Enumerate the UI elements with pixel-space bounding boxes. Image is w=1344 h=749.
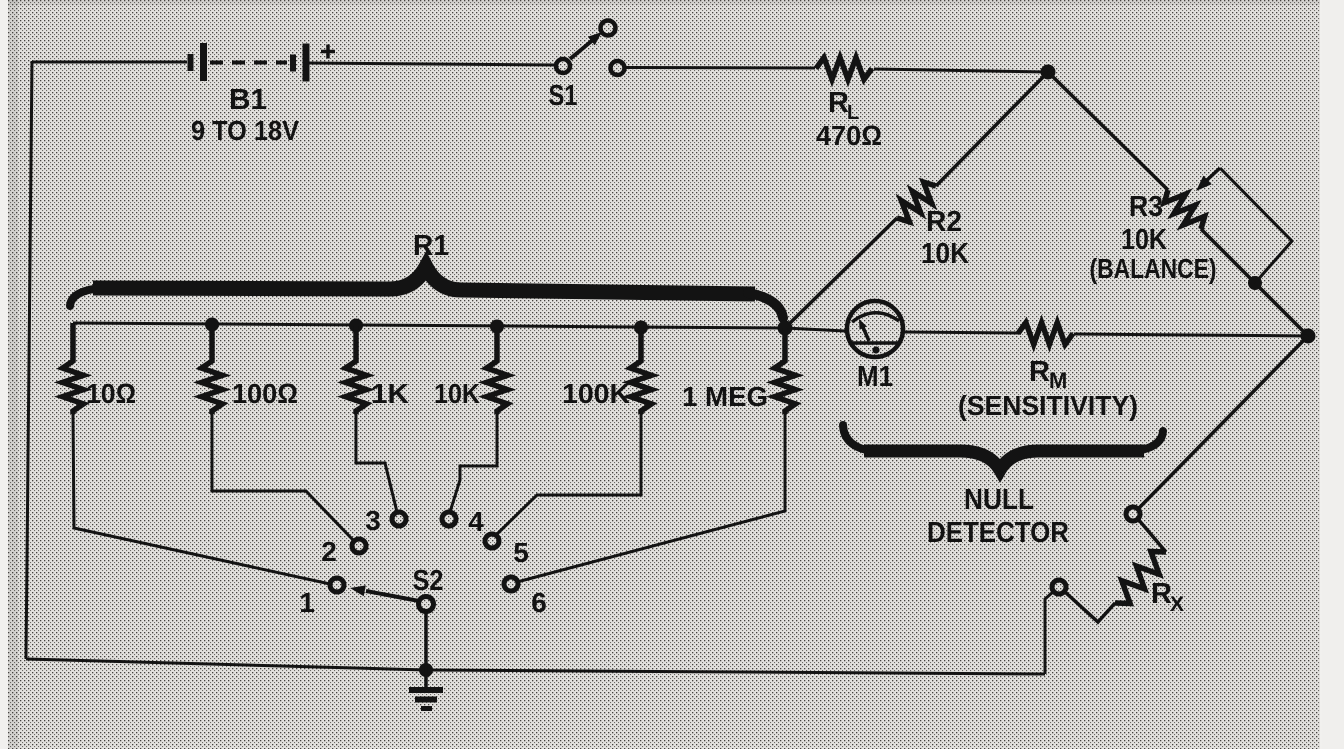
svg-text:1 MEG: 1 MEG bbox=[682, 381, 768, 412]
brace NULL DETECTOR bbox=[843, 425, 1163, 470]
junction ground bbox=[419, 663, 433, 677]
svg-text:R1: R1 bbox=[413, 230, 449, 262]
resistor R1 100 ohm bbox=[202, 325, 223, 415]
wire battery left lead bbox=[32, 61, 187, 64]
label RM bbox=[1029, 356, 1067, 393]
resistor RL bbox=[816, 58, 872, 80]
wire S1 to RL bbox=[625, 66, 815, 70]
label contact 5 bbox=[513, 537, 529, 568]
resistor R1 10K bbox=[487, 327, 508, 415]
label 10K (bank) bbox=[434, 378, 480, 409]
resistor RM bbox=[1018, 323, 1073, 345]
svg-text:10K: 10K bbox=[434, 378, 480, 409]
svg-text:M1: M1 bbox=[857, 361, 893, 393]
svg-text:S1: S1 bbox=[549, 80, 578, 112]
junction bus x=641 bbox=[634, 321, 648, 335]
ground symbol bbox=[409, 670, 443, 711]
label contact 4 bbox=[468, 506, 484, 537]
wire 100 ohm to contact 2 bbox=[212, 414, 354, 541]
wire RM to right node bbox=[1074, 334, 1308, 336]
svg-text:10K: 10K bbox=[1121, 224, 1167, 256]
wire R3 to junction bbox=[1201, 229, 1255, 283]
label contact 2 bbox=[321, 536, 337, 567]
svg-text:4: 4 bbox=[468, 506, 484, 537]
S2 wiper arrow bbox=[350, 585, 419, 601]
svg-text:10Ω: 10Ω bbox=[86, 378, 136, 409]
label 1 MEG bbox=[682, 381, 768, 412]
wire 1K to contact 3 bbox=[356, 414, 397, 512]
label B1 bbox=[229, 84, 267, 116]
S2 contact 1 bbox=[330, 578, 344, 592]
wire S2 pole to ground bus bbox=[424, 611, 428, 670]
label contact 1 bbox=[299, 587, 315, 618]
wire meter to RM bbox=[904, 332, 1019, 333]
wire Rx terminal to zigzag bbox=[1138, 519, 1166, 552]
wire 100K to contact 5 bbox=[496, 414, 641, 535]
wire 10K to contact 4 bbox=[450, 414, 497, 512]
label S1 bbox=[549, 80, 578, 112]
svg-text:R3: R3 bbox=[1129, 191, 1163, 223]
resistor R2 bbox=[897, 182, 936, 222]
wire Rx left terminal to ground bus bbox=[1045, 592, 1053, 674]
svg-text:100K: 100K bbox=[562, 378, 630, 409]
svg-text:R: R bbox=[828, 87, 849, 119]
label 100 ohm bbox=[232, 378, 298, 409]
label 9 TO 18V bbox=[191, 115, 299, 146]
S2 contact 5 bbox=[485, 534, 499, 548]
label 10 ohm bbox=[86, 378, 136, 409]
label R1 bbox=[413, 230, 449, 262]
wire ground bus bbox=[26, 659, 1045, 674]
label contact 6 bbox=[531, 587, 547, 618]
brace R1 bbox=[70, 267, 783, 318]
wire R2 to bus junction bbox=[785, 218, 897, 328]
svg-text:2: 2 bbox=[321, 536, 337, 567]
switch S1 bbox=[556, 21, 625, 76]
label S2 bbox=[413, 565, 444, 597]
resistor R1 100K bbox=[631, 328, 652, 415]
svg-text:R: R bbox=[1151, 578, 1172, 610]
svg-text:R: R bbox=[1029, 356, 1050, 388]
wire battery to switch S1 bbox=[309, 63, 556, 65]
node right (bridge right corner) bbox=[1301, 329, 1316, 344]
wire Rx zigzag to left terminal bbox=[1065, 592, 1115, 622]
label RX bbox=[1151, 578, 1184, 616]
svg-text:100Ω: 100Ω bbox=[232, 378, 298, 409]
junction below R3 bbox=[1248, 276, 1262, 290]
svg-text:3: 3 bbox=[365, 505, 381, 536]
junction bus x=497 bbox=[490, 320, 504, 334]
resistor R1 1 MEG bbox=[775, 328, 796, 414]
wire 1 MEG to contact 6 bbox=[517, 414, 785, 582]
label 470 ohm bbox=[816, 120, 882, 151]
wire right node to Rx terminal bbox=[1138, 336, 1308, 509]
resistor R1 1K bbox=[346, 326, 367, 415]
svg-text:S2: S2 bbox=[413, 565, 444, 597]
S2 pole bbox=[419, 597, 434, 612]
R3 wiper arrow bbox=[1196, 168, 1220, 191]
junction bus x=212 bbox=[205, 318, 219, 332]
wire RL to top node bbox=[874, 69, 1048, 72]
battery plus sign bbox=[321, 45, 335, 59]
label M1 bbox=[857, 361, 893, 393]
svg-text:9 TO 18V: 9 TO 18V bbox=[191, 115, 299, 146]
label NULL bbox=[964, 484, 1034, 516]
node top (bridge top corner) bbox=[1041, 65, 1056, 80]
wire 10 ohm to contact 1 bbox=[73, 414, 330, 584]
label 10K (R2) bbox=[921, 238, 969, 270]
svg-text:470Ω: 470Ω bbox=[816, 120, 882, 151]
resistor R1 10 ohm bbox=[63, 323, 84, 414]
label RL bbox=[828, 87, 859, 124]
S2 contact 3 bbox=[392, 512, 406, 526]
wire junction to right node bbox=[1255, 283, 1308, 336]
wire left vertical (battery minus to ground bus) bbox=[26, 61, 32, 659]
R3 wiper loop wire bbox=[1220, 168, 1292, 283]
resistor Rx bbox=[1115, 552, 1166, 604]
svg-text:5: 5 bbox=[513, 537, 529, 568]
battery B1 bbox=[188, 43, 310, 82]
svg-text:6: 6 bbox=[531, 587, 547, 618]
junction bus x=356 bbox=[349, 319, 363, 333]
label R2 bbox=[926, 206, 962, 238]
terminal Rx top bbox=[1126, 507, 1140, 521]
svg-text:10K: 10K bbox=[921, 238, 969, 270]
label 1K bbox=[371, 378, 409, 409]
wire R1 bus bbox=[73, 323, 785, 328]
potentiometer R3 bbox=[1164, 190, 1204, 229]
svg-text:(SENSITIVITY): (SENSITIVITY) bbox=[958, 390, 1138, 421]
wire top node to R2 bbox=[936, 72, 1048, 186]
svg-text:NULL: NULL bbox=[964, 484, 1034, 516]
junction bus right end bbox=[778, 321, 793, 336]
svg-text:1K: 1K bbox=[371, 378, 409, 409]
svg-text:B1: B1 bbox=[229, 84, 267, 116]
svg-text:(BALANCE): (BALANCE) bbox=[1090, 253, 1217, 284]
wire top node to R3 bbox=[1048, 72, 1168, 190]
svg-text:R2: R2 bbox=[926, 206, 962, 238]
label (BALANCE) bbox=[1090, 253, 1217, 284]
wire bus junction to meter M1 bbox=[785, 328, 845, 331]
terminal Rx left bbox=[1052, 580, 1066, 594]
label 10K (R3) bbox=[1121, 224, 1167, 256]
svg-text:1: 1 bbox=[299, 587, 315, 618]
svg-text:X: X bbox=[1170, 593, 1184, 616]
S2 contact 4 bbox=[442, 512, 456, 526]
label R3 bbox=[1129, 191, 1163, 223]
meter M1 bbox=[847, 301, 903, 357]
label 100K bbox=[562, 378, 630, 409]
S2 contact 6 bbox=[504, 577, 518, 591]
S2 contact 2 bbox=[352, 539, 366, 553]
svg-text:DETECTOR: DETECTOR bbox=[927, 517, 1069, 549]
label DETECTOR bbox=[927, 517, 1069, 549]
label contact 3 bbox=[365, 505, 381, 536]
label (SENSITIVITY) bbox=[958, 390, 1138, 421]
